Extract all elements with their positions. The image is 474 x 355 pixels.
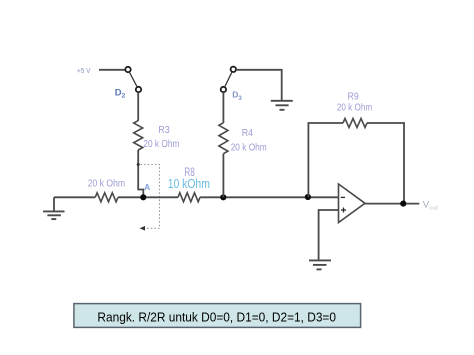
ground (left) xyxy=(43,197,64,219)
resistor R8 xyxy=(178,193,200,202)
op-amp U1 xyxy=(339,184,366,223)
svg-text:Rangk. R/2R untuk D0=0, D1=0,: Rangk. R/2R untuk D0=0, D1=0, D2=1, D3=0 xyxy=(97,310,336,325)
svg-text:10 kOhm: 10 kOhm xyxy=(168,177,210,191)
wire R4 to main node xyxy=(222,154,224,198)
wire op-amp + input xyxy=(319,210,339,260)
svg-text:A: A xyxy=(144,182,150,192)
wire R3 to node A xyxy=(138,150,143,197)
caption box xyxy=(74,304,361,328)
switch D2 xyxy=(125,67,141,92)
wire switch D2 to R3 xyxy=(137,92,139,121)
wire R9 to output xyxy=(367,123,404,204)
resistor R4 xyxy=(219,123,228,154)
switch D3 xyxy=(221,67,236,93)
svg-text:+5 V: +5 V xyxy=(77,66,91,75)
wire feedback loop xyxy=(308,123,343,197)
svg-text:20 k Ohm: 20 k Ohm xyxy=(231,142,267,153)
wire left resistor to R8 xyxy=(118,196,178,198)
wire ground to left resistor xyxy=(54,196,95,198)
wire op-amp output xyxy=(365,203,419,205)
svg-text:R4: R4 xyxy=(242,128,254,139)
svg-text:20 k Ohm: 20 k Ohm xyxy=(88,179,125,190)
resistor R9 xyxy=(343,119,367,128)
resistor R3 xyxy=(134,121,143,150)
svg-text:R3: R3 xyxy=(158,125,170,136)
node A junction dot xyxy=(140,194,146,200)
node junction dot (R4 bottom) xyxy=(220,194,226,200)
wire +5V to switch D2 xyxy=(99,69,125,71)
wire switch D3 to ground xyxy=(236,70,282,101)
svg-text:R9: R9 xyxy=(348,92,360,103)
wire switch D3 to R4 xyxy=(222,92,224,123)
output junction dot xyxy=(400,201,406,207)
ground (op-amp + input) xyxy=(309,260,331,269)
svg-text:20 k Ohm: 20 k Ohm xyxy=(143,139,179,150)
resistor 20k (left) xyxy=(95,193,118,202)
wire R8 to op-amp xyxy=(200,196,339,198)
ground (D3) xyxy=(271,101,293,110)
svg-text:20 k Ohm: 20 k Ohm xyxy=(337,103,372,114)
feedback tap junction dot xyxy=(305,194,311,200)
dashed current loop arrow xyxy=(137,163,160,231)
